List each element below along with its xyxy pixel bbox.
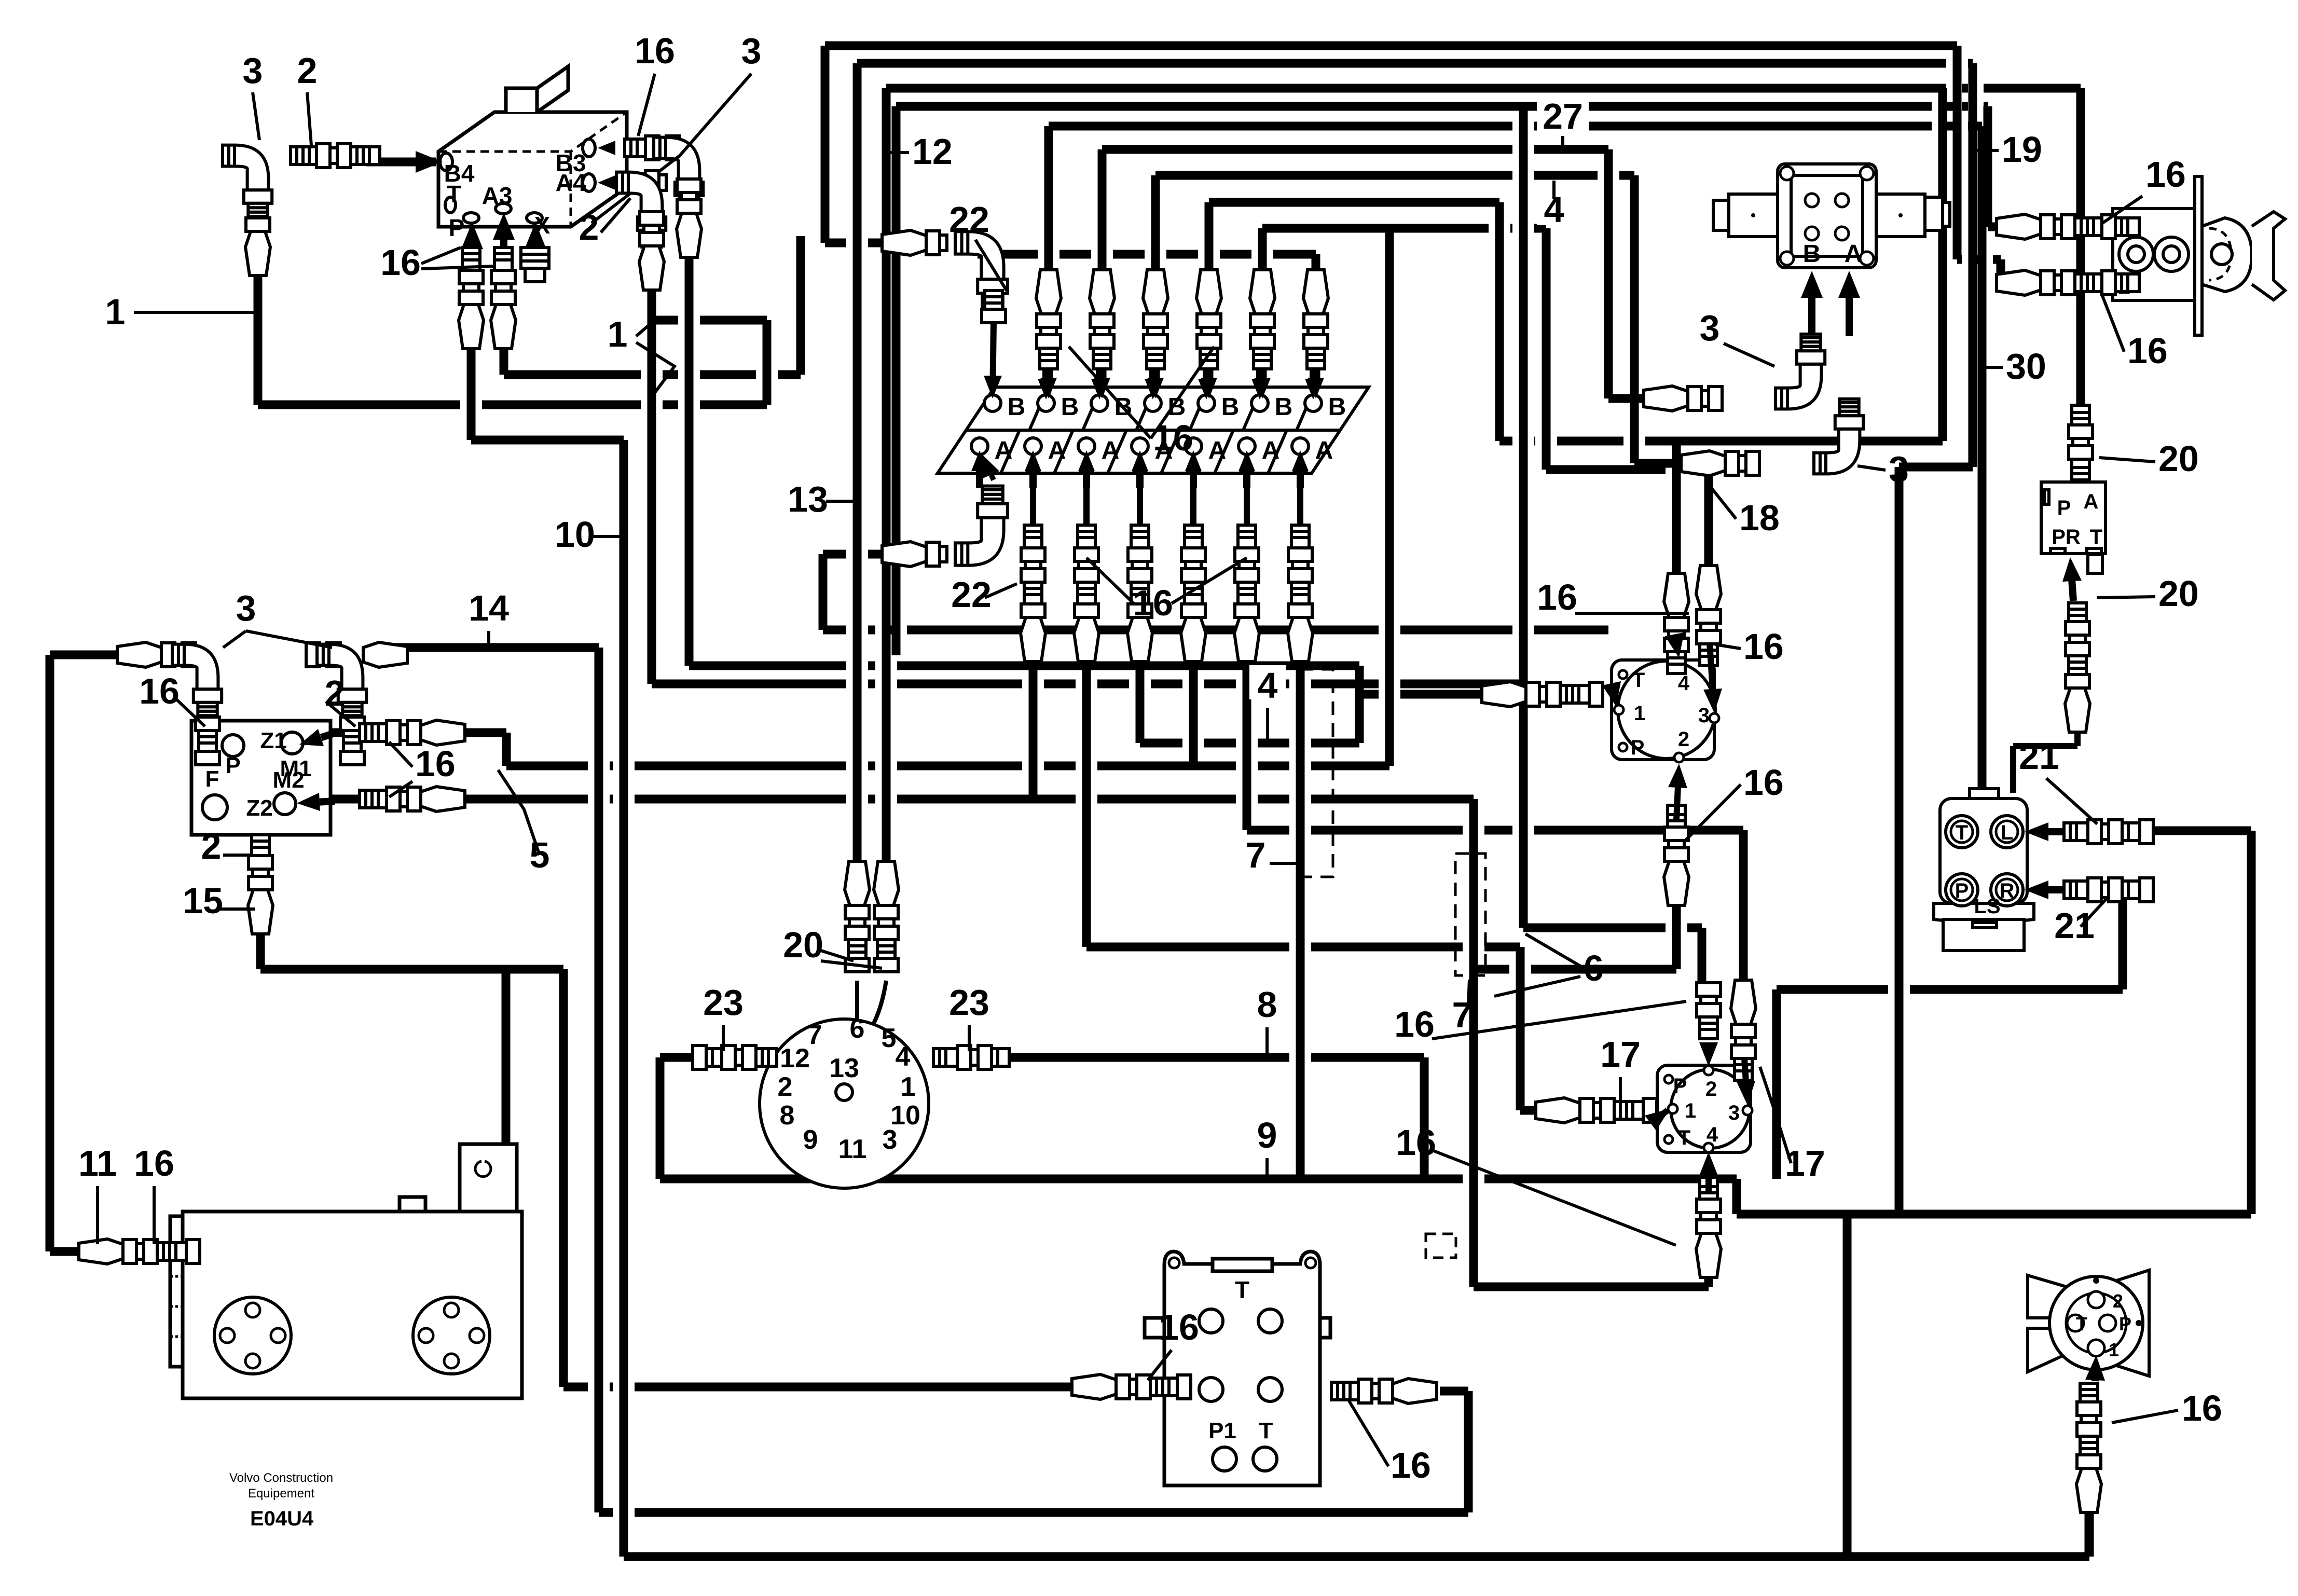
wire into B4: [366, 158, 436, 167]
svg-text:L: L: [2001, 821, 2013, 844]
svg-text:16: 16: [2145, 154, 2186, 195]
svg-text:3: 3: [1728, 1102, 1740, 1124]
svg-text:3: 3: [1889, 449, 1909, 489]
svg-text:4: 4: [1678, 672, 1690, 695]
svg-text:5: 5: [882, 1023, 897, 1053]
wire hose 13/19: second bus right, long vertical 19 down: [857, 63, 1973, 1214]
fitting rot2 p3: [1731, 980, 1756, 1080]
fitting stacks 16 on A hoses: [1030, 473, 1036, 524]
wire branch to rotary1 port2 fitting: [1474, 905, 1676, 969]
svg-text:R: R: [2000, 879, 2015, 902]
svg-text:2: 2: [579, 207, 599, 247]
fitting 21 R: [2064, 878, 2153, 902]
elbow 22 lower: [955, 486, 1008, 566]
arrow into A5: [1190, 471, 1197, 488]
wire hose 10: port P down, long run to bottom right grapple: [471, 345, 2089, 1557]
wire stair B7 left to elbow 22 upper: [978, 254, 1316, 395]
arrow into A3: [1083, 471, 1090, 488]
svg-text:A: A: [1102, 437, 1120, 464]
svg-text:P: P: [2119, 1313, 2131, 1334]
hose end A: [1681, 451, 1759, 476]
wire hose A3 to rotary2 port1: [1086, 653, 1536, 1110]
svg-text:27: 27: [1543, 96, 1583, 136]
arrow into M2: [320, 801, 335, 802]
svg-text:B: B: [1275, 393, 1293, 421]
fitting rot1 p4: [1664, 573, 1689, 673]
arrow into A7: [1297, 471, 1304, 488]
fitting stack A at 2197: [1127, 525, 1152, 662]
fitting rot2 p4: [1696, 1177, 1721, 1277]
svg-text:3: 3: [236, 588, 256, 628]
elbow right 3: [317, 644, 366, 720]
fitting 16 grapple: [2076, 1383, 2101, 1512]
svg-text:A: A: [1845, 240, 1863, 268]
svg-text:P: P: [449, 214, 465, 241]
svg-text:3: 3: [1700, 308, 1720, 348]
svg-text:4: 4: [896, 1042, 911, 1072]
wire grapple to bottom line: [2085, 1512, 2094, 1557]
arrow into B7: [1310, 366, 1317, 379]
arrow into B6: [1256, 366, 1263, 379]
manifold port: [1258, 1378, 1282, 1401]
svg-text:23: 23: [703, 982, 744, 1023]
fitting 16 below elbow: [196, 717, 219, 765]
fitting stack B at 2124: [1090, 270, 1114, 369]
wire riser to rotary1 port4 fitting: [1672, 441, 1681, 573]
svg-text:9: 9: [803, 1125, 818, 1155]
svg-text:11: 11: [838, 1134, 867, 1164]
svg-text:17: 17: [1600, 1034, 1641, 1075]
wire hose from elbow B3 down to rotary1 port1 feed: [689, 252, 1359, 694]
fitting below A3: [491, 247, 516, 349]
fitting 2 below elbow: [340, 717, 364, 765]
svg-text:16: 16: [1396, 1122, 1436, 1163]
hose end below elbow: [245, 218, 270, 276]
wire A7 down: [1296, 653, 1305, 1179]
svg-text:3: 3: [741, 31, 762, 71]
svg-text:T: T: [1678, 1126, 1690, 1149]
svg-text:2: 2: [1705, 1078, 1717, 1100]
wire hose 8: clock port4 down to bus: [998, 1057, 1424, 1179]
elbow 3 B: [1776, 334, 1825, 409]
svg-text:T: T: [2090, 526, 2102, 548]
svg-text:16: 16: [635, 31, 675, 71]
svg-text:16: 16: [1159, 1307, 1199, 1347]
wire hose 27: to elbow of pilot valve B: [1102, 149, 1644, 398]
mid fitting: [306, 643, 340, 667]
valve block top-left with ports B4 T A3 P X B3 A4: [438, 66, 627, 227]
wire branch down mid to rotary2 port 2 fitting: [1523, 106, 1702, 983]
fitting rot1 p3: [1696, 566, 1721, 666]
svg-text:Z2: Z2: [246, 795, 272, 821]
hose end 22 upper: [882, 230, 947, 255]
arrow into B pilot: [1808, 298, 1815, 336]
arrow into M1: [321, 733, 336, 737]
fitting below P: [459, 247, 484, 349]
fitting 20 upper: [2069, 405, 2093, 480]
wire hose 14: right, down, bottom loop to central manifold right port: [377, 648, 1468, 1512]
svg-text:A: A: [1315, 437, 1333, 464]
port M2 circ: [274, 793, 296, 815]
fitting stack A at 2403: [1234, 525, 1259, 662]
arrow into A4: [1136, 471, 1144, 488]
dashed sleeve 7 upper: [1300, 669, 1333, 877]
fitting M2: [360, 787, 465, 811]
wire into rotary1 port1 hose: [1359, 690, 1482, 699]
svg-text:P: P: [225, 753, 240, 778]
fitting stack B at 2227: [1143, 270, 1168, 369]
elbow 3 top-left: [223, 145, 272, 221]
fitting stack B at 2536: [1303, 270, 1328, 369]
manifold with B and A port rows: [938, 387, 1369, 473]
wire bus y850 from vertical: [1499, 88, 1943, 441]
elbow at A4: [616, 172, 666, 247]
fitting left port: [1072, 1374, 1191, 1399]
svg-text:23: 23: [949, 982, 989, 1023]
svg-text:A: A: [1262, 437, 1280, 464]
wire hose 12: third bus to PA box fitting: [886, 88, 2081, 885]
hose end left: [117, 642, 196, 667]
svg-text:13: 13: [829, 1053, 859, 1083]
wire B stub 3: [1098, 363, 1107, 397]
fitting stack B at 2021: [1036, 270, 1061, 369]
arrow into B1: [993, 323, 994, 376]
hose end B: [1644, 386, 1722, 411]
arrow into B4: [392, 158, 416, 166]
manifold port: [1199, 1378, 1223, 1401]
port B1: [984, 395, 1001, 411]
svg-text:T: T: [1632, 669, 1645, 692]
svg-text:16: 16: [1743, 762, 1784, 803]
svg-text:B: B: [1328, 393, 1346, 421]
arrow into grapple port 1: [2091, 1380, 2099, 1381]
svg-text:P: P: [1955, 879, 1969, 902]
port P circ: [222, 735, 244, 756]
svg-text:T: T: [2076, 1313, 2087, 1334]
wire hose from elbow A4 down and across mid bus: [652, 285, 1523, 684]
elbow left 3: [172, 644, 222, 720]
fitting 23 right: [933, 1045, 1009, 1069]
manifold port: [1258, 1309, 1282, 1333]
port A6: [1239, 438, 1255, 455]
svg-text:4: 4: [1707, 1123, 1718, 1146]
port A2: [1025, 438, 1041, 455]
hose end rot1 p1: [1482, 682, 1603, 707]
arrow into L: [2048, 828, 2062, 835]
fitting stack B at 2330: [1196, 270, 1221, 369]
wire from fitting 20 down to steering top: [2013, 726, 2077, 793]
wire M1 riser up: [1385, 228, 1394, 766]
svg-text:E04U4: E04U4: [250, 1507, 314, 1530]
fitting stack B at 2433: [1250, 270, 1275, 369]
port A4: [1132, 438, 1148, 455]
fitting 23 left: [693, 1045, 777, 1069]
fitting rot1 p2: [1664, 805, 1689, 905]
wire A2 down: [1029, 653, 1038, 799]
svg-text:B: B: [1803, 240, 1821, 268]
port M1 circ: [281, 732, 303, 754]
hydraulic pump bottom-left: [170, 1144, 522, 1398]
fitting 20 right: [874, 861, 899, 972]
wire hose M1 bus: [322, 733, 1389, 766]
arrow into B3: [615, 144, 615, 152]
hose end 22 lower: [882, 542, 947, 567]
svg-text:2: 2: [778, 1072, 793, 1102]
hose into p1: [1997, 214, 2139, 239]
svg-text:Volvo Construction: Volvo Construction: [229, 1471, 333, 1485]
svg-text:B: B: [1221, 393, 1240, 421]
pilot box P A PR T: [2041, 482, 2106, 573]
svg-text:B: B: [1168, 393, 1186, 421]
svg-text:6: 6: [1584, 948, 1604, 988]
wire hose 8/21 riser to steering R: [1777, 889, 2123, 1179]
fitting 16 at B3: [625, 136, 680, 160]
pilot valve B/A top right: [1713, 164, 1950, 268]
port B3: [1091, 395, 1108, 411]
dashed sleeve 7 lower: [1455, 854, 1485, 975]
arrow into B3: [1096, 366, 1103, 379]
svg-text:T: T: [1259, 1418, 1273, 1443]
fitting 20 left: [845, 861, 870, 972]
svg-text:13: 13: [788, 479, 828, 519]
arrow into A6: [1243, 471, 1250, 488]
wire stair B6 to rotary1 port3 fitting: [1262, 228, 1709, 566]
svg-text:8: 8: [1257, 984, 1277, 1025]
svg-text:PR: PR: [2052, 526, 2081, 548]
fitting 2 at A4: [625, 171, 666, 195]
arrow into P: [469, 249, 476, 259]
svg-text:16: 16: [139, 671, 180, 711]
svg-text:B: B: [1061, 393, 1079, 421]
svg-text:1: 1: [608, 314, 628, 354]
svg-text:12: 12: [912, 131, 953, 172]
hose end rot2 p1: [1536, 1098, 1657, 1123]
svg-text:A: A: [1048, 437, 1066, 464]
plug fitting below port X: [521, 247, 549, 282]
wire A6 to rotary2 port3 fitting: [1247, 653, 1743, 980]
left valve block T P Z1 M1 F M2 Z2: [191, 721, 331, 835]
wire hose from elbow 22 lower to the right: [823, 554, 1608, 630]
svg-text:20: 20: [2158, 573, 2199, 614]
svg-text:16: 16: [1133, 583, 1173, 623]
port A3: [1078, 438, 1095, 455]
wire hose 4: A4 to rotary1 port1 riser: [1140, 653, 1359, 743]
port T2: [1253, 1447, 1277, 1471]
wire hose from port A3 right up to bus 1: [504, 236, 801, 375]
hose end right elbow: [363, 642, 407, 667]
svg-text:LS: LS: [1974, 895, 2000, 918]
right block with ports 1 2 and bracket: [2113, 176, 2285, 335]
svg-text:1: 1: [105, 292, 126, 332]
svg-text:T: T: [1235, 1276, 1249, 1303]
svg-text:8: 8: [780, 1100, 795, 1131]
svg-text:2: 2: [1678, 728, 1689, 751]
wire stub to elbow 3: [50, 651, 126, 659]
arrow into A pilot: [1846, 298, 1853, 336]
hose end under elbow3: [677, 179, 701, 257]
elbow 3 at B3: [654, 137, 703, 213]
svg-text:1: 1: [1685, 1099, 1696, 1122]
svg-text:30: 30: [2006, 346, 2046, 387]
wire drop from 9 line to bottom: [1843, 1214, 1852, 1557]
fitting stack A at 2506: [1288, 525, 1313, 662]
svg-text:16: 16: [2127, 331, 2168, 371]
svg-text:12: 12: [780, 1043, 810, 1074]
svg-text:16: 16: [415, 744, 456, 784]
wire hose 11: far left down to pump inlet: [50, 655, 79, 1251]
svg-text:16: 16: [1537, 577, 1577, 617]
svg-text:2: 2: [2113, 1290, 2123, 1312]
svg-text:T: T: [447, 181, 461, 208]
port B2: [1038, 395, 1054, 411]
svg-text:14: 14: [469, 588, 509, 628]
port B7: [1305, 395, 1322, 411]
svg-text:Z1: Z1: [260, 728, 286, 753]
wire hose M2/5 down to rotary2 port4 loop: [322, 799, 1709, 1287]
elbow 22 upper: [955, 231, 1008, 311]
fitting rot2 p2: [1697, 983, 1721, 1039]
fitting below Z2: [248, 835, 273, 934]
fitting 20 lower: [2065, 603, 2090, 732]
arrow into A2: [1029, 471, 1037, 488]
wire hose to right block port 1: [896, 106, 2003, 655]
port B5: [1198, 395, 1215, 411]
fitting stack A at 2300: [1181, 525, 1206, 662]
svg-text:Equipement: Equipement: [248, 1487, 314, 1501]
svg-text:10: 10: [555, 514, 595, 555]
svg-text:T: T: [1956, 821, 1968, 844]
fitting right port: [1331, 1379, 1437, 1404]
svg-text:16: 16: [1153, 418, 1193, 458]
svg-text:16: 16: [1391, 1445, 1431, 1485]
svg-text:P: P: [1673, 1075, 1687, 1097]
svg-text:15: 15: [183, 880, 223, 921]
wire B stub 2: [1044, 363, 1053, 397]
wire hose 1: elbow top-left to the right: [258, 228, 767, 405]
pump flange circles: [214, 1297, 291, 1374]
svg-text:21: 21: [2054, 905, 2095, 946]
elbow 3 A: [1814, 399, 1863, 474]
fitting 2 top-left: [291, 144, 380, 168]
svg-text:1: 1: [2109, 1339, 2119, 1360]
grapple rotator bottom right: [2028, 1270, 2149, 1376]
svg-text:20: 20: [2158, 438, 2199, 479]
wire B stub 7: [1312, 363, 1320, 397]
fitting stack A at 1991: [1021, 525, 1045, 662]
svg-text:P: P: [2057, 497, 2071, 519]
svg-text:B: B: [1008, 393, 1026, 421]
fitting 11/16 pump inlet: [79, 1239, 200, 1264]
svg-text:P: P: [1631, 736, 1645, 759]
arrow into A4: [615, 179, 615, 186]
manifold port: [1199, 1309, 1223, 1333]
rotary coupling upper: [1612, 660, 1715, 760]
svg-text:2: 2: [297, 50, 318, 91]
svg-text:22: 22: [949, 199, 989, 240]
arrow into A3: [500, 240, 507, 259]
rotary distributor clock face: [760, 1019, 929, 1188]
svg-text:3: 3: [1698, 704, 1710, 727]
arrow into B2: [1042, 366, 1050, 379]
svg-text:1: 1: [901, 1072, 916, 1102]
svg-text:16: 16: [2182, 1388, 2222, 1428]
wire A5 down: [1189, 653, 1198, 766]
threads below elbow 22: [982, 291, 1006, 323]
svg-text:3: 3: [243, 50, 263, 91]
svg-text:A3: A3: [482, 182, 513, 209]
svg-text:9: 9: [1257, 1115, 1277, 1155]
svg-text:M2: M2: [272, 767, 304, 793]
wire branch from A4 hose to hose 1: [652, 320, 767, 405]
wire B stub 5: [1205, 363, 1214, 397]
arrow into X: [532, 249, 539, 259]
rotary coupling lower: [1657, 1065, 1751, 1152]
svg-text:16: 16: [380, 242, 421, 283]
svg-text:19: 19: [2002, 129, 2042, 170]
wire hose 4 upper: to elbow of pilot valve A: [1155, 175, 1681, 463]
dashed sleeve small bottom: [1426, 1234, 1456, 1258]
arrow into A1: [976, 471, 983, 488]
svg-text:22: 22: [951, 574, 992, 615]
arrow up into A1: [991, 475, 994, 480]
steering unit T L P R LS: [1934, 789, 2034, 951]
fitting stack A at 2094: [1074, 525, 1099, 662]
svg-text:3: 3: [883, 1125, 898, 1155]
svg-text:18: 18: [1739, 498, 1780, 538]
wire B stub 6: [1258, 363, 1267, 397]
svg-text:20: 20: [783, 925, 823, 965]
svg-text:P1: P1: [1208, 1418, 1236, 1443]
wire stair B5 to bus y850: [1209, 202, 1499, 441]
svg-text:21: 21: [2019, 736, 2059, 777]
arrow into PR: [2072, 581, 2073, 601]
wire hose 30: down to steering unit top: [1049, 126, 1982, 789]
fitting 21 L: [2064, 820, 2153, 844]
svg-text:4: 4: [1258, 665, 1278, 706]
wire B stub 4: [1151, 363, 1160, 397]
svg-text:A: A: [2084, 490, 2099, 513]
wire hose 15: down and right into central manifold left port: [260, 912, 1072, 1387]
wire hose 9/21: clock port12 loop to steering L: [660, 831, 2251, 1214]
port B6: [1251, 395, 1268, 411]
svg-text:16: 16: [1743, 626, 1784, 667]
fitting M1: [360, 720, 465, 745]
wire branch into pump top box: [502, 969, 511, 1144]
svg-text:F: F: [205, 766, 219, 792]
port A5: [1185, 438, 1202, 455]
central manifold block: [1145, 1251, 1330, 1485]
arrow into R: [2048, 886, 2062, 893]
svg-text:16: 16: [1394, 1004, 1435, 1044]
svg-text:2: 2: [201, 826, 222, 866]
svg-text:16: 16: [134, 1143, 174, 1184]
arrow into B5: [1203, 366, 1210, 379]
svg-text:11: 11: [78, 1143, 117, 1184]
arrow into B4: [1149, 366, 1157, 379]
svg-text:A: A: [1208, 437, 1227, 464]
port A1: [971, 438, 988, 455]
svg-text:A: A: [995, 437, 1013, 464]
svg-text:1: 1: [1634, 702, 1645, 725]
hose into p2: [1997, 270, 2139, 295]
wire bus 1: outer top loop to right block port 2: [825, 46, 2006, 283]
port P1: [1213, 1447, 1236, 1471]
hose end under elbow A4: [639, 212, 664, 290]
port A7: [1292, 438, 1309, 455]
svg-text:A4: A4: [556, 169, 586, 196]
svg-text:7: 7: [1246, 835, 1266, 875]
port F circ: [202, 795, 227, 820]
